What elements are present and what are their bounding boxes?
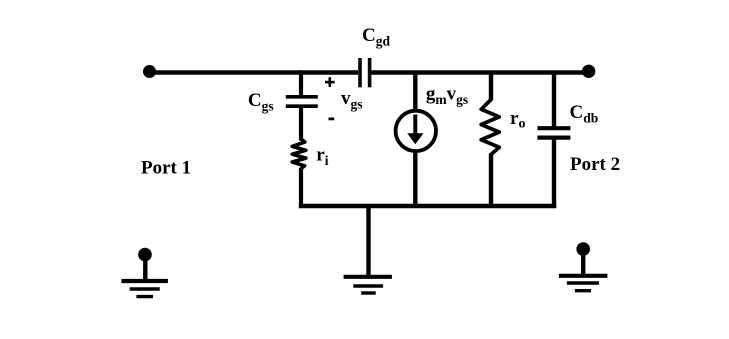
wire ground stem from bottom rail <box>366 206 370 277</box>
wire gate junction to Cgd left plate <box>299 70 358 74</box>
wire Cgs to ri <box>299 108 303 141</box>
polarity minus of vgs <box>329 118 335 121</box>
wire ro branch top <box>489 71 493 101</box>
label Cgd <box>362 25 390 49</box>
label gm vgs <box>426 84 468 108</box>
ground (Port 1 side) <box>121 255 167 297</box>
label Cdb <box>570 102 599 126</box>
capacitor C_db <box>537 128 570 137</box>
current source gm*vgs <box>396 111 436 151</box>
svg-text:Port 2: Port 2 <box>570 154 620 175</box>
svg-text:ro: ro <box>510 108 525 132</box>
wire bottom rail <box>299 204 556 208</box>
wire Cdb branch bottom <box>552 139 556 208</box>
wire current-source branch top <box>413 71 417 113</box>
wire Port1 to gate junction <box>150 70 302 74</box>
capacitor C_gd (series, top) <box>360 58 370 87</box>
label ri <box>316 145 328 169</box>
resistor ri (zigzag) <box>292 139 306 170</box>
node Port 1 ground terminal <box>138 248 152 262</box>
label vgs <box>341 88 363 112</box>
svg-text:vgs: vgs <box>341 88 363 112</box>
wire gate branch vertical <box>299 71 303 96</box>
resistor ro (zigzag) <box>481 100 499 155</box>
label Port 2 <box>570 154 620 175</box>
node Port 2 terminal <box>582 65 595 78</box>
capacitor C_gs <box>286 97 318 106</box>
svg-text:Cdb: Cdb <box>570 102 599 126</box>
ground (center) <box>344 277 392 293</box>
svg-text:Cgs: Cgs <box>248 90 274 114</box>
label Port 1 <box>141 158 191 179</box>
wire Cgd right plate to drain node and Port2 <box>371 70 588 74</box>
node Port 2 ground terminal <box>576 242 590 256</box>
node Port 1 terminal <box>143 65 156 78</box>
label Cgs <box>248 90 274 114</box>
svg-text:Port 1: Port 1 <box>141 158 191 179</box>
wire current-source branch bottom <box>413 150 417 208</box>
label ro <box>510 108 525 132</box>
svg-text:gmvgs: gmvgs <box>426 84 468 108</box>
wire ro branch bottom <box>489 154 493 209</box>
wire ri to bottom rail <box>299 168 303 208</box>
polarity plus of vgs <box>325 77 335 87</box>
ground (Port 2 side) <box>559 249 608 291</box>
svg-text:ri: ri <box>316 145 328 169</box>
wire Cdb branch top <box>552 71 556 127</box>
svg-text:Cgd: Cgd <box>362 25 390 49</box>
